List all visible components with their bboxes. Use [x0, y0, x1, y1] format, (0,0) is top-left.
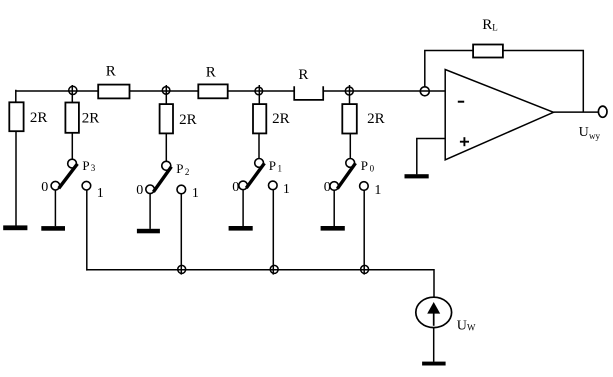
ground (source Uw) — [422, 362, 446, 366]
resistor 2R (bit 2 branch) — [160, 104, 197, 133]
node B junction circle — [162, 87, 170, 95]
ground (switch P2) — [137, 229, 160, 234]
wire: P1 position 0 to ground — [242, 190, 244, 226]
svg-text:2R: 2R — [30, 110, 48, 126]
wire: node2 riser to 2R — [165, 85, 167, 104]
wire: 2R bit0 down to switch P0 — [349, 134, 351, 159]
svg-text:P: P — [269, 158, 276, 173]
ground (switch P1) — [229, 226, 253, 231]
svg-text:0: 0 — [324, 180, 331, 195]
svg-text:U: U — [457, 318, 467, 333]
resistor 2R (bit 0 branch) — [342, 104, 384, 133]
wire: node1 riser to 2R — [71, 85, 73, 103]
wire: op-amp output — [554, 111, 599, 113]
node D junction circle — [345, 87, 353, 95]
svg-text:0: 0 — [370, 164, 375, 174]
svg-text:2R: 2R — [179, 112, 197, 128]
resistor RL (feedback) — [473, 17, 503, 57]
switch P1 — [232, 158, 290, 197]
wire: feedback to output — [503, 51, 583, 113]
svg-text:W: W — [467, 322, 476, 332]
svg-text:0: 0 — [232, 180, 239, 195]
resistor 2R (terminating branch) — [9, 102, 47, 131]
svg-text:R: R — [298, 67, 308, 83]
svg-text:1: 1 — [278, 164, 283, 174]
terminal Uwy (output) — [579, 106, 607, 141]
wire: P2 position 0 to ground — [149, 194, 151, 229]
source Uw (reference voltage source) — [416, 297, 476, 333]
wire: node3 riser to 2R — [258, 85, 260, 104]
svg-text:P: P — [176, 161, 183, 176]
wire: reference bus — [87, 270, 434, 298]
svg-text:U: U — [579, 125, 589, 140]
switch P0 — [324, 158, 382, 198]
svg-text:1: 1 — [97, 186, 104, 201]
wire: 2R bit2 down to switch P2 — [165, 133, 167, 161]
svg-text:R: R — [482, 17, 492, 33]
wire: top rail right segment to op-amp — [323, 90, 445, 92]
resistor 2R (bit 3 branch) — [65, 103, 99, 133]
node: bus junction P2 — [178, 265, 186, 273]
wire: top rail left segment with left riser — [16, 90, 294, 103]
ground (switch P3) — [41, 226, 65, 231]
wire: non-inverting input to ground — [417, 139, 445, 175]
resistor 2R (bit 1 branch) — [253, 104, 290, 133]
svg-text:0: 0 — [136, 183, 143, 198]
op-amp U1 — [445, 70, 553, 160]
svg-text:1: 1 — [283, 182, 290, 197]
ground (terminating branch) — [3, 225, 27, 230]
switch P3 — [41, 158, 104, 201]
wire: P3 position 1 down to bus — [86, 190, 88, 271]
svg-text:R: R — [206, 65, 216, 81]
svg-text:P: P — [361, 158, 368, 173]
resistor R (second ladder section) — [198, 65, 227, 99]
svg-text:R: R — [106, 63, 116, 79]
ground (op-amp non-inverting input) — [405, 174, 429, 178]
wire: 2R bit1 down to switch P1 — [258, 133, 260, 158]
resistor R (third ladder section, open-top style) — [294, 67, 323, 100]
wire: terminating 2R to ground — [15, 131, 17, 225]
wire: source to ground — [433, 328, 435, 362]
node C junction circle — [255, 87, 263, 95]
svg-text:2R: 2R — [272, 111, 290, 127]
switch P2 — [136, 161, 199, 201]
svg-text:1: 1 — [374, 183, 381, 198]
svg-text:0: 0 — [41, 180, 48, 195]
wire: feedback riser and top run — [425, 51, 473, 88]
wire: P3 position 0 to ground — [54, 190, 56, 226]
svg-text:2: 2 — [185, 167, 190, 177]
svg-text:wy: wy — [589, 131, 600, 141]
svg-text:L: L — [492, 22, 498, 32]
wire: P1 position 1 down to bus — [272, 190, 274, 275]
wire: 2R bit3 down to switch P3 — [71, 133, 73, 160]
wire: P0 position 1 down to bus — [363, 190, 365, 274]
node: bus junction P1 — [270, 265, 278, 273]
svg-text:2R: 2R — [82, 111, 100, 127]
svg-text:P: P — [82, 158, 89, 173]
node A junction circle — [69, 86, 77, 94]
svg-text:2R: 2R — [367, 111, 385, 127]
svg-text:3: 3 — [91, 163, 96, 173]
ground (switch P0) — [321, 226, 345, 231]
resistor R (first ladder section) — [98, 63, 129, 98]
wire: node4 riser to 2R — [349, 85, 351, 104]
node: summing node at op-amp input — [420, 87, 429, 96]
node: bus junction P0 — [361, 265, 369, 273]
svg-text:1: 1 — [192, 186, 199, 201]
wire: P2 position 1 down to bus — [180, 194, 182, 275]
wire: P0 position 0 to ground — [333, 190, 335, 226]
